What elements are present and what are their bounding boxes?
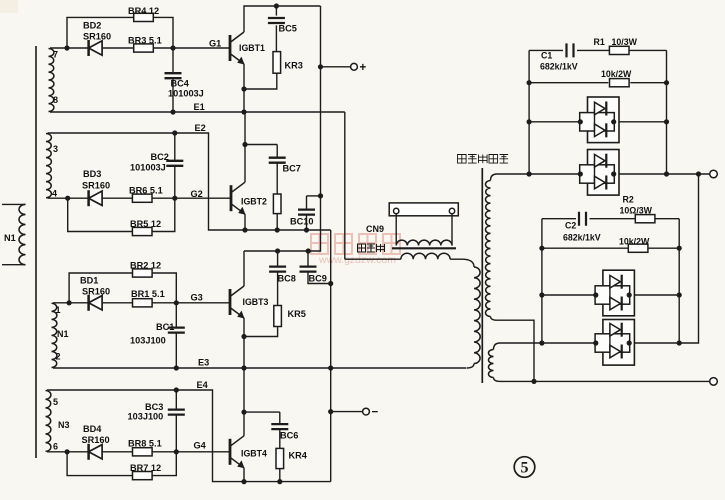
transistor IGBT1 [230,32,245,65]
junction node emitter1/KR3 [241,86,246,91]
junction node BC6 tap [241,410,246,415]
svg-text:IGBT4: IGBT4 [241,449,267,459]
svg-text:BD2: BD2 [83,21,101,31]
junction node g1 right 10k [664,80,669,85]
wire BC7 to snubber resistor [276,163,278,194]
svg-text:E1: E1 [194,102,205,112]
wire E1 to CN9 primary [344,112,346,259]
svg-text:CN9: CN9 [366,224,384,234]
svg-text:1: 1 [56,305,61,315]
wire positive line (top rail to IGBT3 collector rail) [308,6,320,251]
junction node G2/BC2 [172,196,177,201]
svg-text:6: 6 [53,442,58,452]
wire BC6 top tap [244,411,280,413]
diode BD2 [89,40,103,56]
wire minus line (IGBT2 emitter to bottom rail) [330,230,332,482]
wire BC7 top tap [245,144,277,146]
wire IGBT4 emitter lead [243,468,245,482]
wire gate line G1 (winding 7 to IGBT1 base) [50,47,230,49]
svg-text:BD1: BD1 [80,276,98,286]
wire group1 right bus [666,50,668,174]
resistor R1 [609,46,629,54]
svg-text:G3: G3 [191,293,203,303]
wire BC6 top lead [279,412,281,424]
svg-text:BC4: BC4 [171,79,190,89]
svg-text:G2: G2 [191,189,203,199]
wire gate line G4 [47,451,231,453]
svg-text:E4: E4 [197,380,209,390]
svg-text:E2: E2 [195,123,206,133]
wire C1-R1 link [577,49,609,51]
svg-text:BC9: BC9 [309,274,327,284]
wire CN9 left stub [395,214,397,246]
junction node winding6/BD4 [65,449,70,454]
wire 10k/2W-2 left lead [542,247,628,249]
svg-text:N1: N1 [57,329,69,339]
capacitor C2 [579,212,586,226]
terminal + output [351,63,358,70]
label gan char [367,244,375,252]
junction node G3/BC1 [174,300,179,305]
winding secondary 7-8 [49,49,54,112]
wire module1 right wire [614,121,666,123]
junction node KR4 bottom [277,479,282,484]
wire IGBT1 collector to top rail [244,6,321,32]
label hu char [358,244,366,252]
junction node emitter4 [241,479,246,484]
label bian char [479,155,488,164]
svg-text:BC6: BC6 [280,431,298,441]
junction node g1 right bus bottom [664,171,669,176]
wire E1 rail [50,111,345,113]
svg-text:5: 5 [521,460,529,477]
wire module4 right wire [630,342,679,344]
wire module3 left wire [542,294,595,296]
wire BC10 top lead [306,196,308,210]
svg-text:+: + [360,62,367,74]
wire BC8 to KR5 [277,272,279,306]
resistor R2 [635,215,655,223]
junction node secondary top / left bus [527,171,532,176]
junction node BC9 top [306,248,311,253]
junction node BC9 bottom [328,281,333,286]
wire R1 right lead [629,49,667,51]
wire primary bottom bend [467,364,475,369]
resistor BR1 [133,299,153,307]
junction module3 right pin [627,292,632,297]
junction node E3 midpoint [241,365,246,370]
junction node g1 module1 left bus [527,119,532,124]
wire E2 line / IGBT2 emitter rail [48,133,331,230]
junction node E3/primary return [328,365,333,370]
junction module4 right pin [627,340,632,345]
wire BC10 top tap [307,195,321,197]
junction node lower secondary / left bus [539,340,544,345]
junction node g2 right 10k [677,246,682,251]
svg-text:SR160: SR160 [82,287,110,297]
junction node G1/BC4 [170,45,175,50]
svg-text:KR4: KR4 [289,451,308,461]
resistor BR4 [134,13,154,21]
wire group1 left bus [528,50,530,174]
svg-text:BC3: BC3 [145,402,163,412]
junction module1 right pin [611,119,616,124]
scan smudge top-left [0,0,18,13]
wire BC5 top lead [275,6,277,16]
resistor KR4 [276,448,284,468]
svg-text:C1: C1 [541,51,552,61]
resistor snubber resistor of IGBT2 [273,194,281,214]
wire C2 left lead [542,218,576,220]
wire N1 primary bottom lead [2,264,26,266]
wire KR3 bottom to emitter [244,73,277,89]
diode BD4 [89,444,103,460]
junction node BC10 top tap [318,193,323,198]
capacitor BC9 [300,267,317,272]
diode module U1 (upper pair 1) [580,97,619,143]
capacitor BC2 [166,161,183,166]
capacitor BC6 [271,424,288,429]
capacitor BC8 [269,267,286,272]
resistor BR3 [134,44,154,52]
svg-text:BC1: BC1 [156,322,174,332]
junction node g1 module1 right bus [664,119,669,124]
CN9 connector box [389,203,458,216]
junction node g1 left 10k [527,80,532,85]
svg-text:BC10: BC10 [290,217,314,227]
svg-text:IGBT2: IGBT2 [241,197,267,207]
junction module3 left pin [593,292,598,297]
winding upper secondary [485,181,490,317]
winding CN9 primary winding [401,253,450,259]
transistor IGBT4 [230,436,245,469]
junction node winding4/BD3 [65,196,70,201]
svg-text:10Ω/3W: 10Ω/3W [620,206,653,216]
capacitor BC4 [165,73,182,78]
wire output return wire [500,380,710,382]
svg-text:4: 4 [52,189,57,199]
wire + terminal stub [321,66,351,68]
svg-text:BR2 12: BR2 12 [130,261,161,271]
wire BC7 top lead [276,145,278,158]
terminal CN9 pin 2 [449,208,454,213]
wire - terminal stub [331,411,363,413]
label huan char [458,155,467,164]
resistor KR5 [274,306,282,327]
wire BC3 top lead [175,390,177,410]
svg-text:5: 5 [53,397,58,407]
wire upper secondary bottom lead [491,317,535,382]
wire BC3 bottom lead [175,415,177,452]
wire gate transformer core [35,46,37,458]
junction node - terminal tap [328,409,333,414]
circled figure number 5 [514,457,535,478]
svg-text:www.gzdzw.com: www.gzdzw.com [318,254,396,266]
capacitor BC10 [298,210,315,215]
junction node g2 left 10k [539,246,544,251]
winding secondary 3-4 [46,134,51,198]
junction node winding1/BD1 [67,300,72,305]
capacitor BC7 [269,158,286,163]
svg-text:103J100: 103J100 [128,412,164,422]
resistor BR7 [133,472,153,480]
junction node + terminal tap [318,64,323,69]
diode module U2 (upper pair 2) [580,150,619,196]
svg-text:682k/1kV: 682k/1kV [540,62,578,72]
diode BD1 [89,295,103,311]
capacitor BC3 [168,410,185,415]
capacitor BC1 [168,328,185,333]
resistor 10k/2W resistor 2 [628,244,648,252]
wire CN9 primary right lead [450,258,462,260]
wire lower secondary bottom bend [494,378,501,382]
label ya char [489,155,498,164]
wire primary top bend [462,259,474,267]
svg-text:BC7: BC7 [283,164,301,174]
wire BC1 top lead [175,303,177,328]
wire BR4 loop [67,17,173,48]
wire BR2 loop [69,273,176,303]
capacitor C1 [567,43,574,57]
svg-text:BC5: BC5 [279,24,297,34]
wire 10k/2W-2 right lead [649,247,680,249]
label xing char [468,155,477,164]
diode BD3 [89,190,103,206]
junction node BC8 top [275,248,280,253]
junction module1 left pin [578,119,583,124]
svg-text:7: 7 [53,50,58,60]
junction module2 left pin [578,171,583,176]
junction node BC3/E4 [174,387,179,392]
wire 10k/2W right lead [630,82,666,84]
svg-text:BC8: BC8 [278,274,296,284]
wire lower secondary top bend [494,343,501,350]
diode module U4 (lower pair 2) [595,320,634,366]
svg-text:R2: R2 [623,195,634,205]
svg-text:BR7 12: BR7 12 [130,463,161,473]
svg-text:R1: R1 [594,37,605,47]
svg-text:682k/1kV: 682k/1kV [563,233,601,243]
label qi char [377,244,385,252]
wire 10k/2W left lead [529,82,608,84]
svg-text:BR3 5.1: BR3 5.1 [128,36,162,46]
wire IGBT3 emitter to E3 [243,318,245,368]
resistor BR8 [133,448,153,456]
junction node g2 right bus bottom [677,340,682,345]
wire group2 left bus [541,219,543,343]
junction node BC7 tap [242,142,247,147]
wire CN9 primary left lead [345,258,401,260]
winding secondary 5-6 [46,391,51,452]
wire upper secondary top bend [491,174,498,181]
wire module4 left wire [500,342,595,344]
junction node g2 module3 left bus [539,292,544,297]
wire group2 right bus [678,219,680,343]
terminal - output [363,408,370,415]
wire collector rail (to + line) [244,250,308,252]
wire parallel output link [679,174,698,343]
svg-text:IGBT1: IGBT1 [239,43,265,53]
wire module3 right wire [630,294,679,296]
capacitor BC5 [268,18,285,23]
terminal CN9 pin 1 [394,208,399,213]
svg-text:IGBT3: IGBT3 [243,297,269,307]
resistor BR5 [132,227,152,235]
wire IGBT4 collector to E3 [243,368,245,436]
svg-text:10k/2W: 10k/2W [619,237,650,247]
wire gate line G3 [53,302,230,304]
diode module U3 (lower pair 1) [595,270,634,316]
junction node BC10 bottom [304,227,309,232]
junction node BC5 top [274,3,279,8]
winding toroid primary [474,267,480,364]
junction node BC2/E2 [172,130,177,135]
svg-text:KR3: KR3 [285,61,303,71]
wire BC6 to KR4 [279,429,281,448]
resistor 10k/2W resistor [610,79,630,87]
winding CN9 secondary [396,240,452,245]
svg-text:C2: C2 [565,221,576,231]
wire BC9 top lead [307,251,309,267]
svg-text:103J100: 103J100 [130,336,166,346]
svg-text:BR5 12: BR5 12 [130,219,161,229]
wire R2 right lead [655,218,679,220]
wire BC9 bottom to minus line [308,272,331,284]
resistor BR6 [132,194,152,202]
svg-text:SR160: SR160 [83,32,111,42]
winding N1 primary [19,204,26,264]
junction node BC1/E3 [174,365,179,370]
wire BC4 bottom lead [172,78,174,112]
winding secondary 1-2 [52,303,57,367]
wire CN9 right stub [451,214,453,246]
svg-text:3: 3 [53,144,58,154]
wire module2 right wire / output [614,173,709,175]
svg-text:E3: E3 [198,358,209,368]
wire IGBT3 collector lead [243,251,245,286]
svg-text:N1: N1 [4,233,16,243]
junction node g2 module3 right bus [677,292,682,297]
wire module2 left wire [497,173,580,175]
wire CN9 core [392,247,456,249]
wire C1 left lead [529,49,563,51]
wire gate line G2 [48,197,232,199]
junction module4 left pin [593,340,598,345]
junction node parallel link top [696,171,701,176]
wire KR5 bottom to emitter [244,327,278,337]
svg-text:G4: G4 [194,441,207,451]
junction node BC4/E1 [170,109,175,114]
svg-text:2: 2 [56,352,61,362]
wire E4 line / bottom rail [47,390,331,482]
svg-text:101003J: 101003J [130,163,166,173]
wire IGBT1 emitter to E1 [243,64,245,112]
wire snubber resistor bottom lead [276,214,278,230]
resistor BR2 [133,269,153,277]
wire E3 rail / transformer primary return [53,367,466,369]
label qi2 char [500,155,509,164]
wire BR7 loop [67,452,176,476]
svg-text:N3: N3 [58,420,70,430]
terminal DC output A [710,170,718,178]
wire BC4 top lead [172,48,174,73]
svg-text:−: − [372,407,379,419]
terminal DC output B [710,378,718,386]
resistor KR3 [273,52,281,74]
svg-text:SR160: SR160 [82,181,110,191]
svg-text:BR8 5.1: BR8 5.1 [128,439,162,449]
wire BC5 to KR3 [275,25,277,51]
svg-text:BR4 12: BR4 12 [128,6,159,16]
svg-text:BD3: BD3 [83,169,101,179]
junction module2 right pin [611,171,616,176]
wire KR4 bottom lead [279,469,281,482]
wire BC8 top lead [277,251,279,267]
svg-text:8: 8 [53,95,58,105]
transistor IGBT2 [231,182,246,215]
winding lower secondary [489,350,494,378]
wire C2-R2 link [590,218,636,220]
junction node E1 midpoint [241,109,246,114]
svg-text:10/3W: 10/3W [612,37,638,47]
junction node winding7/BD2 [64,45,69,50]
wire BC1 bottom lead [175,333,177,368]
watermark (decorative) [311,234,400,266]
junction node secondary commons [531,379,536,384]
wire N1 primary top lead [2,203,26,205]
wire module1 left wire [529,121,580,123]
junction node emitter3/KR5 [241,334,246,339]
svg-text:10k/2W: 10k/2W [601,69,632,79]
svg-text:BR1 5.1: BR1 5.1 [131,289,165,299]
wire BC10 bottom lead [306,215,308,230]
junction node snubber2 bottom [275,227,280,232]
wire BR5 loop [68,198,175,231]
svg-text:G1: G1 [209,39,221,49]
wire toroid core [481,168,483,383]
svg-text:KR5: KR5 [288,309,306,319]
transistor IGBT3 [230,286,245,319]
junction node emitter2 [242,227,247,232]
wire IGBT2 collector to E1 [244,112,246,182]
svg-text:SR160: SR160 [82,435,110,445]
svg-text:101003J: 101003J [168,89,204,99]
wire IGBT2 emitter lead [244,214,246,230]
svg-text:BC2: BC2 [151,152,169,162]
svg-text:BD4: BD4 [83,424,102,434]
wire BC2 bottom lead [174,166,176,198]
wire BC2 top lead [174,133,176,161]
junction node G4/BC3 [174,449,179,454]
svg-text:BR6 5.1: BR6 5.1 [129,186,163,196]
